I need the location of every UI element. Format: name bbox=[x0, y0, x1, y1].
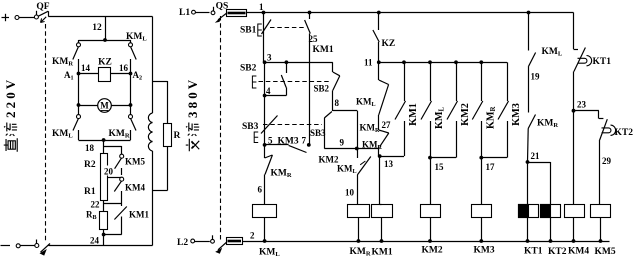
wire node17 to coil KM3 bbox=[481, 158, 483, 205]
node 13 bbox=[378, 154, 382, 158]
svg-text:11: 11 bbox=[364, 58, 373, 68]
svg-text:KZ: KZ bbox=[98, 58, 112, 68]
svg-text:16: 16 bbox=[119, 63, 129, 73]
label 20 bbox=[103, 166, 116, 176]
svg-text:13: 13 bbox=[384, 159, 394, 169]
fuse top bbox=[227, 10, 247, 17]
svg-text:21: 21 bbox=[531, 151, 541, 161]
svg-text:12: 12 bbox=[92, 23, 102, 33]
SB1 linkage dashed bbox=[270, 27, 306, 29]
svg-text:L2: L2 bbox=[177, 238, 188, 248]
contact KT1 delayed bbox=[574, 13, 592, 111]
contact KZ overcurrent relay bbox=[373, 11, 381, 63]
node 23 bbox=[572, 109, 576, 113]
node 4 bbox=[263, 94, 267, 98]
contact KM2 interlock bbox=[447, 60, 458, 157]
svg-text:7: 7 bbox=[302, 136, 307, 146]
contact KM1 bbox=[114, 203, 126, 235]
svg-text:R2: R2 bbox=[84, 160, 96, 170]
svg-text:KM5: KM5 bbox=[595, 247, 616, 257]
SB3 linkage dashed bbox=[263, 124, 322, 126]
start button SB2 contact a bbox=[265, 60, 289, 95]
svg-text:QF: QF bbox=[36, 2, 49, 12]
node 11 bbox=[377, 60, 381, 64]
relay coil KZ bbox=[99, 68, 111, 82]
contact KM_R (19-21) bbox=[528, 115, 536, 163]
svg-text:380V: 380V bbox=[185, 77, 200, 118]
field branch bottom join wire bbox=[153, 190, 168, 192]
svg-text:SB1: SB1 bbox=[240, 26, 257, 36]
node 15 bbox=[428, 156, 432, 160]
label KML vertical bbox=[434, 106, 446, 129]
breaker QF bottom pole bbox=[1, 240, 51, 256]
wire KZ to A2 bbox=[111, 73, 131, 75]
node A2 bbox=[129, 72, 133, 76]
svg-text:18: 18 bbox=[85, 143, 95, 153]
label KM2 vertical bbox=[460, 103, 471, 126]
svg-text:SB3: SB3 bbox=[242, 122, 259, 132]
SB2 linkage dashed bbox=[259, 81, 331, 83]
contact KM_L bottom-left of bridge bbox=[73, 105, 81, 140]
wire bbox=[167, 81, 169, 123]
contact KM5 bbox=[115, 146, 124, 175]
bridge top bus wire bbox=[79, 40, 131, 42]
svg-text:KM3: KM3 bbox=[278, 137, 299, 147]
QS linkage dashed bbox=[220, 16, 222, 242]
wire right bridge rail bbox=[130, 74, 132, 106]
coil KM1 bbox=[372, 205, 393, 218]
svg-text:KM4: KM4 bbox=[125, 183, 145, 193]
svg-text:KM2: KM2 bbox=[319, 155, 339, 165]
coil KM5 bbox=[591, 205, 611, 218]
contact KM_L (11-27) bbox=[379, 62, 389, 130]
contact KM_R (5-6) bbox=[265, 155, 273, 205]
contact KM_L to KM_R coil bbox=[357, 150, 371, 205]
wire 21 to KT1 coil bbox=[527, 162, 529, 205]
node 9 bus wire bbox=[324, 148, 379, 150]
wire bbox=[195, 12, 209, 14]
wire left bridge rail bbox=[78, 74, 80, 106]
wire KM3NC to node17 bbox=[481, 157, 507, 159]
contact KM_L top-right of bridge bbox=[129, 40, 137, 74]
svg-text:R: R bbox=[174, 131, 181, 141]
switch QS top pole bbox=[211, 7, 227, 23]
coil KM2 bbox=[421, 205, 441, 218]
wire 23 to KT2 contact bbox=[574, 110, 599, 112]
DC top rail wire bbox=[48, 16, 152, 18]
contact KM_L (rail-19) bbox=[527, 11, 536, 113]
svg-text:KT1: KT1 bbox=[593, 57, 612, 67]
coil KT2 time relay bbox=[541, 205, 561, 218]
wire bbox=[195, 241, 210, 243]
wire coil to rail bbox=[264, 217, 266, 241]
fuse bottom bbox=[227, 238, 243, 245]
coil KM_L bbox=[253, 205, 277, 218]
contact KM1 interlock bbox=[395, 60, 406, 156]
contact KM_R bottom-right of bridge bbox=[129, 105, 137, 140]
node 3 bus wire bbox=[265, 62, 333, 64]
svg-text:15: 15 bbox=[435, 162, 445, 172]
bridge bottom bus wire bbox=[79, 140, 131, 142]
node 21 bbox=[526, 160, 530, 164]
label KMR vertical bbox=[485, 105, 497, 129]
svg-text:14: 14 bbox=[81, 63, 91, 73]
coil KT1 time relay bbox=[519, 205, 539, 218]
contact KT2 delayed bbox=[599, 111, 616, 205]
terminal circle bbox=[192, 10, 196, 14]
node 24 tap wire bbox=[104, 234, 122, 236]
node 24 bbox=[102, 233, 106, 237]
resistor R2 R1 body bbox=[101, 154, 108, 201]
svg-text:2: 2 bbox=[250, 231, 255, 241]
node 20 tap wire bbox=[108, 177, 122, 179]
wire 13 down to coil bbox=[379, 156, 381, 204]
svg-text:27: 27 bbox=[382, 120, 392, 130]
svg-text:4: 4 bbox=[266, 86, 271, 96]
svg-text:9: 9 bbox=[340, 138, 345, 148]
AC bottom rail wire bbox=[242, 241, 610, 243]
wire bbox=[103, 229, 105, 246]
svg-text:KM4: KM4 bbox=[568, 247, 589, 257]
QF linkage dashed bbox=[45, 24, 47, 242]
wire 8 down bbox=[357, 111, 359, 149]
svg-text:17: 17 bbox=[486, 162, 496, 172]
node 1 bbox=[262, 11, 266, 15]
wire node15 to coil KM2 bbox=[430, 158, 432, 205]
node 18 bbox=[102, 138, 106, 142]
svg-text:SB3: SB3 bbox=[310, 128, 326, 138]
svg-text:KM5: KM5 bbox=[125, 157, 145, 167]
svg-text:20: 20 bbox=[104, 167, 114, 177]
bridge motor bus wire bbox=[79, 105, 131, 107]
resistor R body bbox=[164, 124, 172, 147]
svg-text:KT2: KT2 bbox=[615, 128, 634, 138]
svg-text:KT1: KT1 bbox=[524, 247, 543, 257]
svg-text:KM1: KM1 bbox=[372, 248, 393, 258]
coil KM_R bbox=[348, 205, 370, 218]
label KM3 vertical bbox=[511, 103, 522, 126]
interlock bus wire (node 11) bbox=[379, 62, 507, 64]
svg-text:KM1: KM1 bbox=[129, 210, 149, 220]
svg-text:24: 24 bbox=[90, 236, 100, 246]
svg-text:R1: R1 bbox=[84, 187, 96, 197]
button SB3 contact a bbox=[254, 96, 277, 145]
svg-text:KM3: KM3 bbox=[511, 103, 522, 126]
wire KM2NC to node15 bbox=[430, 157, 456, 159]
node 7 bbox=[307, 143, 311, 147]
DC bottom rail wire bbox=[49, 245, 153, 247]
node 13 wire to KM1 NC bbox=[380, 156, 404, 158]
wire 21 to KT2 coil bbox=[528, 162, 551, 164]
svg-text:1: 1 bbox=[259, 2, 264, 12]
svg-text:KM2: KM2 bbox=[460, 103, 471, 126]
node 17 bbox=[479, 156, 483, 160]
AC top rail wire bbox=[246, 12, 574, 14]
svg-text:6: 6 bbox=[258, 185, 263, 195]
svg-text:25: 25 bbox=[309, 34, 319, 44]
svg-text:220V: 220V bbox=[3, 77, 18, 118]
contact KM_R top-left of bridge bbox=[73, 40, 81, 74]
button SB3 contact b bbox=[324, 112, 332, 149]
svg-text:19: 19 bbox=[531, 72, 541, 82]
vertical label DC 220V bbox=[3, 77, 18, 152]
wire KM1 coil top bbox=[380, 204, 382, 206]
contact KMR interlock bbox=[472, 60, 483, 157]
breaker QF top pole bbox=[34, 11, 48, 23]
coil KM4 bbox=[565, 205, 585, 218]
svg-text:KT2: KT2 bbox=[548, 247, 567, 257]
vertical label AC 380V bbox=[185, 77, 200, 152]
node dot bbox=[355, 147, 359, 151]
DC supply plus terminal bbox=[2, 14, 10, 21]
svg-text:KM1: KM1 bbox=[408, 103, 419, 126]
button SB2 contact b bbox=[333, 62, 340, 111]
junction dot bbox=[103, 38, 107, 42]
node 3 bbox=[263, 60, 267, 64]
svg-text:SB2: SB2 bbox=[314, 84, 330, 94]
contact KM4 bbox=[114, 177, 123, 203]
wire bbox=[103, 200, 105, 211]
wire A1 to KZ bbox=[79, 73, 99, 75]
contact KM_R (27-13) bbox=[379, 130, 389, 156]
contact KM1 self-hold bbox=[305, 11, 312, 145]
svg-text:23: 23 bbox=[577, 100, 587, 110]
contact KM3 horizontal bbox=[265, 145, 307, 153]
resistor RB body bbox=[100, 212, 108, 230]
svg-text:22: 22 bbox=[91, 200, 101, 210]
svg-text:L1: L1 bbox=[179, 8, 190, 18]
coil KM3 bbox=[472, 205, 492, 218]
contact KML interlock bbox=[421, 60, 432, 157]
motor M armature bbox=[98, 99, 112, 113]
SB2 actuator bbox=[252, 76, 256, 88]
wire bbox=[19, 17, 35, 19]
switch QS bottom pole bbox=[211, 235, 227, 254]
stop button SB1 bbox=[258, 13, 271, 63]
node 22 tap wire bbox=[104, 203, 122, 205]
wire tap to KM5 branch bbox=[104, 146, 122, 148]
svg-text:3: 3 bbox=[267, 53, 272, 63]
node 5 bbox=[263, 143, 267, 147]
contact KM3 interlock bbox=[498, 62, 509, 157]
svg-text:10: 10 bbox=[345, 188, 355, 198]
field branch top join wire bbox=[153, 81, 168, 83]
wire node18 down bbox=[103, 140, 105, 153]
svg-text:KM1: KM1 bbox=[313, 45, 334, 55]
label KM1 vertical bbox=[408, 103, 419, 126]
wire node6 bbox=[264, 145, 266, 158]
wire bbox=[167, 146, 169, 191]
node 8 wire bbox=[333, 110, 357, 112]
field winding inductor bbox=[148, 17, 152, 246]
svg-text:KM3: KM3 bbox=[474, 246, 495, 256]
svg-text:M: M bbox=[100, 101, 109, 111]
svg-text:KM2: KM2 bbox=[422, 246, 443, 256]
wire 3 to 4 bbox=[264, 62, 266, 95]
terminal circle bbox=[15, 16, 19, 20]
wire 23 down to KM4 coil bbox=[573, 111, 575, 205]
node A1 bbox=[77, 72, 81, 76]
svg-text:8: 8 bbox=[335, 98, 340, 108]
wire node 12 bbox=[105, 17, 107, 41]
svg-text:SB2: SB2 bbox=[240, 64, 257, 74]
svg-text:KZ: KZ bbox=[382, 39, 396, 49]
terminal circle bbox=[191, 239, 195, 243]
svg-text:29: 29 bbox=[602, 156, 612, 166]
